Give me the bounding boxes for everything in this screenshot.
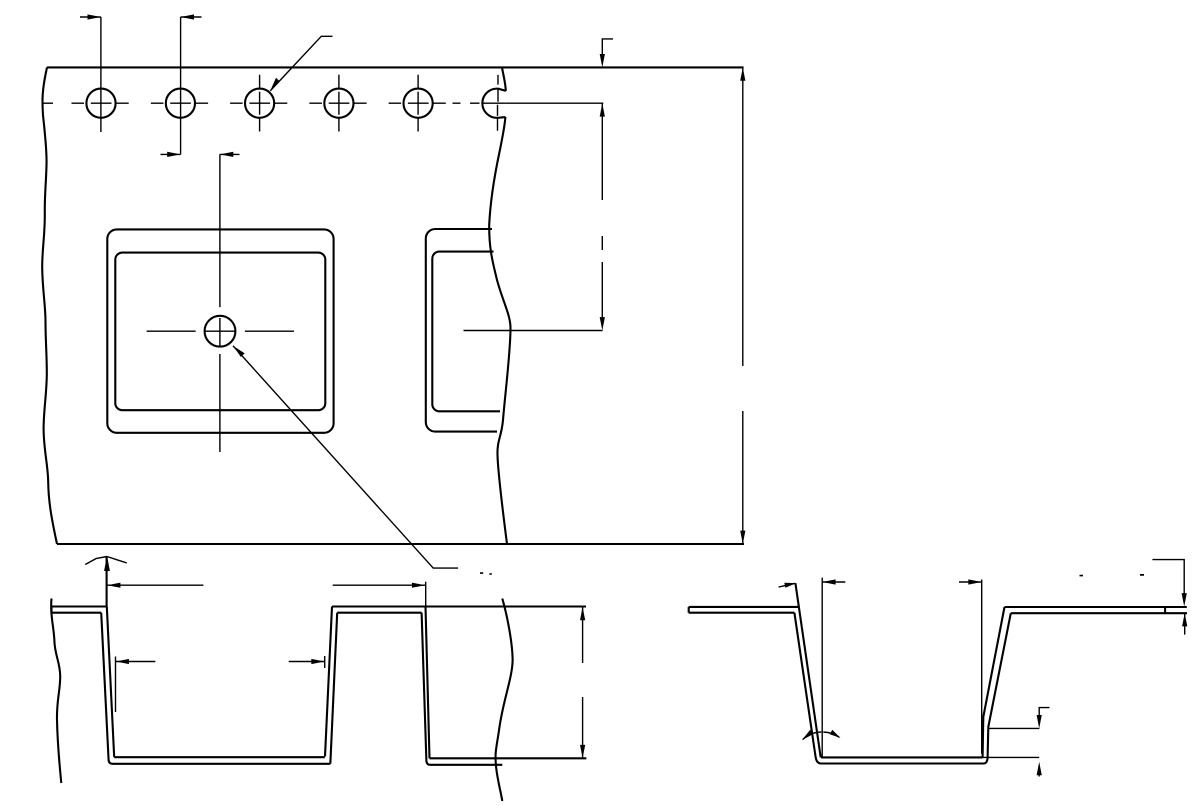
section B: right wall cavity line bbox=[983, 607, 1005, 757]
left break (wavy edge, top view) bbox=[42, 67, 57, 544]
section A: pocket 2 outer bottom bbox=[430, 764, 502, 766]
section A: P1 left extension (thick) with wide arrow bbox=[106, 557, 108, 607]
sprocket hole 3 bbox=[245, 89, 274, 118]
section B: draft angle arc right segment bbox=[823, 732, 839, 737]
section B: B0 right extension line bbox=[981, 580, 983, 754]
section A: P1 right extension line bbox=[425, 582, 427, 607]
section B: left wall cavity line extended up (angle reference) bbox=[795, 583, 820, 757]
sprocket hole 1 bbox=[86, 89, 115, 118]
P0 dimension left tail and arrow bbox=[80, 16, 101, 18]
section B: tape lower surface right bbox=[1011, 612, 1187, 614]
centerline hole 5 horizontal bbox=[389, 102, 446, 104]
leader from pocket 1 circle bbox=[233, 346, 458, 568]
section B: tape top surface left bbox=[689, 606, 799, 608]
right break (wavy line through tape, top view, upper part) bbox=[502, 67, 506, 91]
section A: A0 right arrow bbox=[289, 661, 325, 663]
leader tail specks bbox=[480, 572, 492, 575]
section B: left end cap bbox=[688, 607, 690, 613]
pocket 2 outer rounded rectangle (cut by break) bbox=[426, 229, 497, 432]
section A: pocket 1 right wall cavity line bbox=[325, 607, 332, 757]
section A: P1 dimension line right segment bbox=[333, 584, 426, 586]
section A: A0 left arrow bbox=[116, 661, 156, 663]
centerline hole 1 stray dash at tape edge bbox=[43, 102, 54, 104]
section A: P1 dimension line left segment bbox=[107, 584, 203, 586]
section B: right wall underside line bbox=[984, 613, 1011, 763]
section A: tape lower surface left bbox=[52, 612, 102, 614]
section A: pocket 1 right wall underside line bbox=[330, 613, 337, 764]
section B: t thickness up arrow below bbox=[1184, 614, 1186, 635]
stray specks top right of section B bbox=[1080, 574, 1145, 576]
E dimension bracket above tape edge bbox=[602, 39, 613, 56]
section B: K1 extension line from right wall bbox=[988, 727, 1039, 729]
centerline hole 4 vertical bbox=[338, 75, 340, 132]
section B: B0 right arrow bbox=[959, 581, 982, 583]
leader to sprocket hole 3 bbox=[270, 36, 332, 91]
sprocket hole 2 bbox=[166, 89, 195, 118]
section A: K0 depth dimension line bbox=[582, 607, 584, 759]
section B: left wall underside line bbox=[794, 613, 821, 764]
pocket 2 inner rounded rectangle (cut by break) bbox=[432, 252, 500, 412]
centerline hole 4 horizontal bbox=[309, 102, 366, 104]
centerline hole 5 vertical bbox=[417, 75, 419, 132]
section B: K1 bracket with down arrow bbox=[1039, 708, 1049, 717]
centerline hole 2 horizontal bbox=[151, 102, 208, 104]
section A: pocket 2 left wall cavity line bbox=[426, 607, 430, 759]
pocket 1 outer rounded rectangle bbox=[107, 229, 333, 432]
section A: pocket 1 left wall underside line bbox=[101, 613, 112, 764]
pocket 1 horizontal centerline bbox=[147, 330, 294, 332]
section A: pocket 2 inner bottom and depth extension bbox=[430, 757, 587, 759]
E/F dimension extension of hole 6 centerline bbox=[506, 102, 604, 104]
centerline hole 3 horizontal bbox=[230, 102, 287, 104]
P0 dimension extension line through hole 2 bbox=[180, 17, 182, 154]
section A: pocket 1 outer bottom bbox=[113, 763, 331, 765]
section B: B0 left arrow bbox=[822, 581, 845, 583]
section B: pocket inner bottom bbox=[821, 756, 983, 758]
centerline hole 6 vertical bbox=[497, 75, 500, 131]
centerline hole 6 horizontal dashes bbox=[453, 102, 506, 104]
right break (wavy line through tape, top view, lower part) bbox=[489, 117, 510, 544]
section B: break tick in right tape bbox=[1164, 607, 1166, 613]
section A: pocket 1 left wall cavity line bbox=[107, 607, 114, 758]
section B: B0 left extension line bbox=[821, 578, 823, 759]
section A: land lower surface bbox=[337, 612, 421, 614]
pocket 1 vertical centerline / extension bbox=[219, 154, 221, 452]
section A: A0 left extension line bbox=[115, 657, 117, 713]
section B: tape lower surface left bbox=[689, 612, 795, 614]
section A: pocket 1 inner bottom bbox=[114, 756, 325, 758]
pocket 1 inner rounded rectangle bbox=[115, 253, 325, 411]
section A: pocket 2 left wall underside line bbox=[422, 613, 430, 765]
section A: tape top surface left bbox=[52, 605, 107, 607]
sprocket hole 4 bbox=[324, 89, 353, 118]
sprocket hole 5 bbox=[404, 89, 433, 118]
section A: left end cap bbox=[50, 607, 52, 613]
pocket 2 horizontal centerline bbox=[464, 330, 603, 332]
F dimension line at x=602 with up arrow bbox=[601, 103, 603, 321]
section B: t thickness bracket top right bbox=[1152, 560, 1184, 595]
hole-to-pocket dimension right tail and arrow bbox=[220, 153, 240, 155]
P0 dimension extension line through hole 1 bbox=[100, 17, 102, 132]
section A: right break wavy bbox=[496, 599, 513, 801]
section B: draft angle tick at left wall top bbox=[779, 583, 796, 587]
centerline hole 3 vertical bbox=[259, 75, 261, 132]
P0 dimension right tail and arrow bbox=[181, 16, 202, 18]
section A: left break wavy bbox=[51, 599, 61, 784]
hole-to-pocket dimension left tail and arrow bbox=[161, 153, 181, 155]
section B: bottom thickness extension bbox=[983, 756, 1040, 758]
W dimension line right side bbox=[742, 67, 744, 544]
section B: tape top surface right bbox=[1005, 606, 1187, 608]
section B: draft angle arc left segment bbox=[803, 732, 822, 740]
centerline hole 1 horizontal bbox=[72, 102, 129, 104]
section B: bottom thickness up arrow bbox=[1038, 768, 1040, 777]
pocket 1 center circle bbox=[205, 316, 236, 347]
section A: land top surface and depth extension bbox=[332, 605, 586, 607]
tape bottom edge (top view) bbox=[57, 543, 744, 545]
sprocket hole 6 (cut by break) bbox=[482, 89, 505, 118]
section B: pocket outer bottom bbox=[820, 762, 984, 764]
tape top edge (top view) bbox=[47, 66, 744, 68]
section A: A0 right extension tick bbox=[324, 656, 326, 668]
